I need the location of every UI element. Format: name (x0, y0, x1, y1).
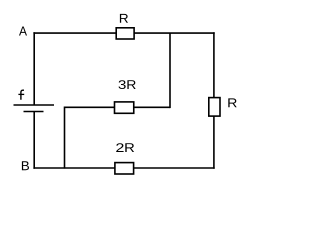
value label R (top resistor) (120, 14, 128, 23)
wire left vertical (A down to battery) (33, 32, 35, 105)
resistor R (top) (116, 28, 134, 39)
value label 2R (116, 143, 123, 152)
wire middle-right vertical (top down to branch) (169, 33, 171, 108)
node B label (22, 161, 29, 170)
resistor 3R (115, 102, 134, 113)
resistor R (right, vertical) (209, 98, 220, 117)
battery f: short plate (24, 111, 44, 113)
wire middle-left vertical (branch down to bottom) (64, 107, 66, 169)
resistor 2R (115, 163, 134, 174)
battery emf label f (18, 90, 24, 100)
wire bottom (B to right corner) (33, 167, 214, 169)
battery f: long plate (14, 104, 55, 106)
value label 3R (119, 80, 126, 89)
wire right vertical (213, 32, 215, 169)
wire top (A to right corner) (33, 32, 214, 34)
node A label (19, 26, 27, 35)
value label R (right resistor) (228, 98, 236, 107)
wire middle branch horizontal (65, 106, 171, 108)
wire left vertical lower (battery down to B) (33, 112, 35, 169)
